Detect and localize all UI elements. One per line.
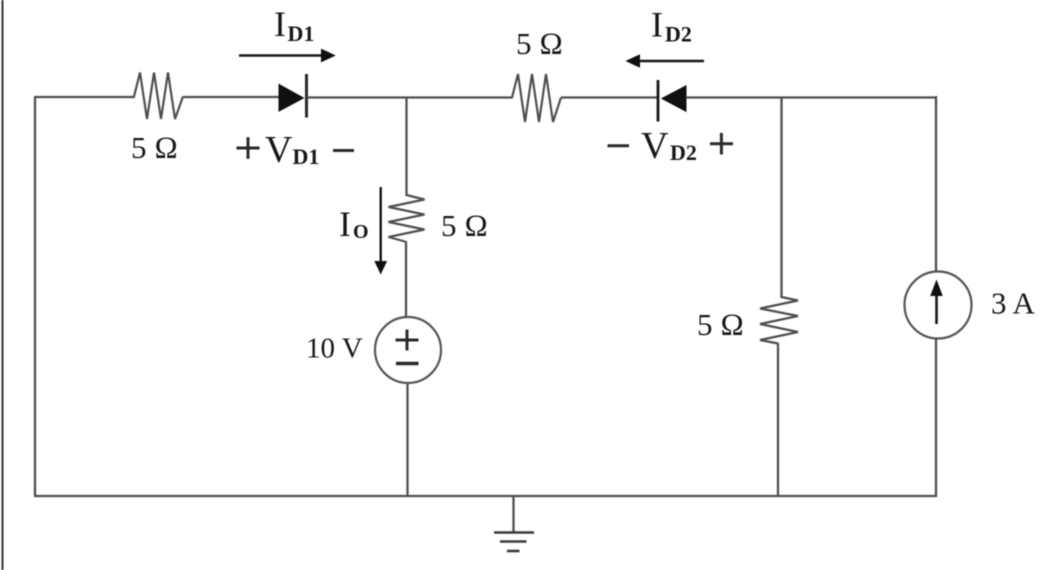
current arrow Io — [374, 187, 387, 275]
resistor R1 — [134, 73, 183, 120]
svg-text:D2: D2 — [665, 22, 692, 47]
svg-text:5 Ω: 5 Ω — [131, 130, 178, 165]
wire R4 to bottom — [777, 343, 779, 497]
label R3 5 ohm — [516, 26, 563, 61]
label R1 5 ohm — [131, 130, 178, 165]
wire node A to R2 — [405, 97, 407, 196]
label ID2 — [651, 5, 692, 47]
svg-text:5 Ω: 5 Ω — [697, 307, 744, 342]
wire R2 to source V1 — [405, 241, 407, 318]
svg-text:D1: D1 — [288, 21, 315, 46]
svg-text:D2: D2 — [670, 140, 697, 165]
svg-text:I: I — [274, 4, 286, 44]
wire branch node B down — [780, 97, 782, 298]
wire V1 to bottom — [406, 383, 408, 497]
svg-text:5 Ω: 5 Ω — [441, 208, 488, 243]
label Io — [339, 204, 369, 244]
resistor R4 vertical — [760, 297, 798, 344]
svg-text:O: O — [353, 221, 369, 243]
diode D1 — [279, 74, 307, 118]
svg-text:V: V — [641, 125, 669, 167]
diode D2 — [658, 80, 686, 122]
svg-text:10 V: 10 V — [306, 333, 363, 365]
current source I1 3A — [905, 272, 972, 339]
wire top segment 5 — [686, 96, 937, 98]
svg-text:D1: D1 — [293, 144, 320, 169]
label R4 5 ohm — [697, 307, 744, 342]
svg-text:V: V — [265, 129, 293, 171]
label 3 A — [991, 286, 1036, 321]
voltage source V1 10V — [375, 317, 441, 383]
svg-text:I: I — [339, 204, 351, 244]
wire top segment 4 — [561, 96, 658, 98]
wire top segment 3 — [307, 96, 513, 98]
resistor R3 — [512, 74, 561, 122]
label ID1 — [274, 4, 314, 46]
label 10 V — [306, 333, 363, 365]
label R2 5 ohm — [441, 208, 488, 243]
current arrow ID2 — [626, 54, 705, 68]
label +VD1- — [237, 129, 355, 171]
wire right vertical top — [935, 96, 937, 272]
wire top segment 2 — [183, 96, 279, 98]
ground — [494, 496, 534, 551]
wire top segment 1 — [34, 96, 135, 98]
wire right vertical bottom — [935, 338, 937, 497]
current arrow ID1 — [239, 49, 336, 63]
label -VD2+ — [608, 125, 734, 167]
svg-text:5 Ω: 5 Ω — [516, 26, 563, 61]
wire left vertical — [34, 97, 36, 496]
svg-text:3 A: 3 A — [991, 286, 1036, 321]
resistor R2 vertical — [389, 195, 425, 242]
svg-text:I: I — [651, 5, 663, 45]
wire bottom horizontal — [34, 495, 937, 497]
